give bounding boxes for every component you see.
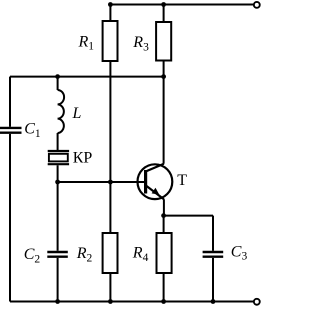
svg-text:L: L [72,105,82,122]
svg-text:T: T [177,172,187,189]
svg-text:КР: КР [73,150,93,167]
